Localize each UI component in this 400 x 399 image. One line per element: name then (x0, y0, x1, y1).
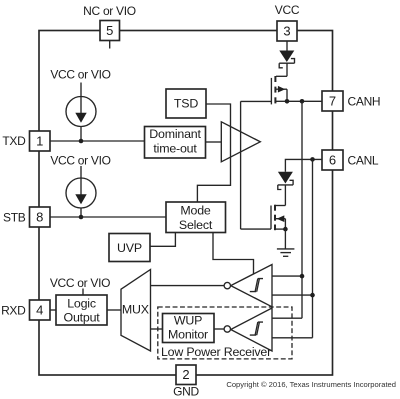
svg-text:Monitor: Monitor (168, 328, 208, 342)
svg-text:6: 6 (329, 153, 336, 168)
svg-text:3: 3 (283, 24, 290, 39)
wire WUP monitor to receiver U3 bubble (214, 328, 224, 330)
node Q1 source (285, 99, 290, 104)
receiver U2 triangle (231, 265, 272, 307)
current source I2 circle (66, 178, 96, 208)
svg-text:GND: GND (173, 385, 199, 399)
wire TSD to mode select (197, 104, 230, 202)
pin 2 box (176, 365, 196, 385)
receiver U3 hysteresis (250, 322, 263, 335)
UVP box (109, 234, 150, 262)
wire logic output to MUX (107, 309, 121, 311)
node Q2 source (283, 227, 288, 232)
pin 4 box (30, 300, 51, 320)
pin 7 box (322, 91, 343, 111)
transistor Q1 high-side (270, 78, 272, 105)
wire low-side gate (241, 228, 271, 230)
VIO stub to logic output (82, 289, 84, 296)
pin 6 box (322, 150, 343, 170)
svg-text:CANL: CANL (348, 154, 379, 168)
wire RXD pin4 to logic output (50, 309, 56, 311)
svg-text:CANH: CANH (348, 95, 381, 109)
current source I1 stub+arrow (80, 83, 82, 120)
svg-text:VCC: VCC (275, 3, 300, 17)
mode select box (166, 202, 226, 233)
receiver U2 output bubble (224, 282, 230, 288)
wire Q1 source to CANH pin7 (287, 100, 322, 102)
wire CANL bus (312, 159, 314, 337)
dominant time-out box (145, 127, 206, 159)
WUP monitor box (163, 314, 215, 343)
driver op-amp triangle (221, 122, 260, 162)
svg-text:UVP: UVP (117, 241, 142, 255)
svg-text:VCC or VIO: VCC or VIO (50, 154, 110, 168)
ground (284, 229, 286, 249)
wire CANH bus (301, 101, 303, 318)
wire STB pin8 to mode select (50, 216, 166, 218)
wire TXD pin1 to dominant time-out (50, 140, 145, 142)
svg-text:time-out: time-out (153, 142, 197, 156)
svg-text:Mode: Mode (180, 204, 211, 218)
transistor Q2 low-side (270, 206, 272, 230)
current source I2 stub+arrow (80, 166, 82, 201)
current source I1 circle (66, 97, 96, 127)
MUX trapezoid (121, 270, 151, 352)
svg-text:RXD: RXD (1, 304, 26, 318)
svg-text:4: 4 (36, 303, 43, 318)
wire dominant time-out to driver (206, 141, 222, 143)
node STB junction (79, 215, 84, 220)
logic output box (56, 295, 107, 325)
svg-text:8: 8 (36, 210, 43, 225)
svg-text:7: 7 (329, 94, 336, 109)
svg-text:Select: Select (179, 218, 213, 232)
wire receiver U2 input CANL (272, 294, 313, 296)
receiver U2 hysteresis (250, 279, 263, 292)
wire receiver U3 input CANL (272, 337, 313, 339)
svg-text:Dominant: Dominant (149, 127, 201, 141)
pin 8 box (30, 207, 51, 227)
svg-text:Output: Output (64, 311, 101, 325)
wire mode select to receiver enable (213, 233, 254, 275)
svg-text:VCC or VIO: VCC or VIO (50, 68, 110, 82)
pin 3 stub (286, 41, 288, 51)
node CANH bus tap (300, 99, 305, 104)
receiver U3 triangle (231, 308, 272, 351)
svg-text:TSD: TSD (174, 97, 198, 111)
svg-text:5: 5 (106, 23, 113, 38)
pin 5 stub (NC) (109, 41, 111, 49)
receiver U3 output bubble (224, 326, 230, 332)
pin 1 box (30, 131, 51, 151)
wire UVP to mode select (150, 233, 175, 247)
wire receiver U2 output to MUX (151, 285, 225, 287)
TSD box (166, 89, 206, 118)
node CANL bus tap (310, 157, 315, 162)
svg-text:MUX: MUX (122, 303, 149, 317)
svg-text:VCC or VIO: VCC or VIO (50, 276, 110, 290)
device outline border (39, 31, 333, 376)
svg-text:WUP: WUP (174, 314, 202, 328)
svg-text:STB: STB (3, 211, 26, 225)
svg-text:2: 2 (182, 367, 189, 382)
wire receiver U3 input CANH (272, 317, 302, 319)
svg-text:TXD: TXD (2, 134, 26, 148)
wire receiver U2 input CANH (272, 275, 302, 277)
wire driver gate bus (240, 101, 242, 229)
pin 5 box (100, 21, 120, 41)
current source I1 bottom stub (80, 127, 82, 142)
pin 3 box (277, 21, 297, 41)
dashed low power receiver box (158, 307, 292, 359)
diode D2 (schottky to CANL) (278, 172, 293, 184)
svg-text:Copyright © 2016, Texas Instru: Copyright © 2016, Texas Instruments Inco… (226, 380, 396, 389)
wire MUX to WUP monitor (151, 328, 163, 330)
wire CANL pin6 (285, 159, 322, 171)
svg-text:Logic: Logic (67, 297, 96, 311)
node TXD junction (79, 139, 84, 144)
wire high-side gate (241, 100, 272, 102)
svg-text:1: 1 (36, 134, 43, 149)
current source I2 bottom stub (80, 208, 82, 217)
svg-text:Low Power Receiver: Low Power Receiver (161, 345, 271, 359)
svg-text:NC or VIO: NC or VIO (83, 4, 136, 18)
diode D1 (schottky to VCC) (279, 51, 294, 63)
